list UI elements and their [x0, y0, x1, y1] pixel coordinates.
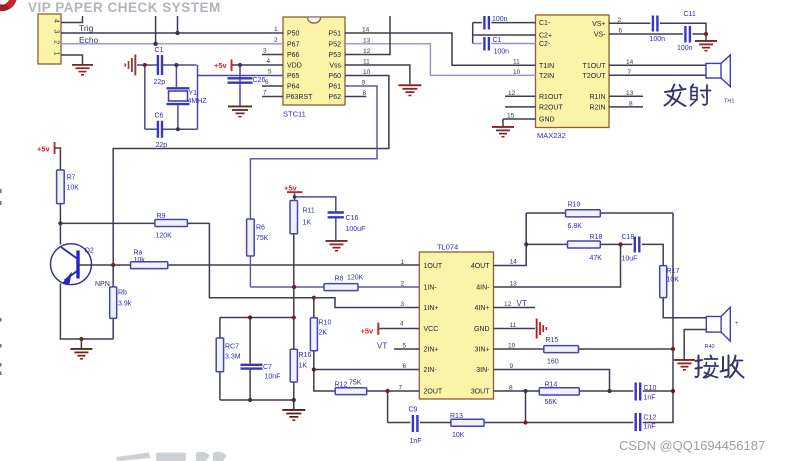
svg-text:Ra: Ra: [134, 250, 143, 257]
svg-text:C26: C26: [253, 77, 266, 84]
svg-text:C16: C16: [346, 215, 359, 222]
svg-text:10K: 10K: [667, 277, 680, 284]
svg-text:4IN+: 4IN+: [475, 305, 490, 312]
svg-text:R8: R8: [335, 276, 344, 283]
svg-text:47K: 47K: [590, 255, 603, 262]
svg-text:R6: R6: [256, 225, 265, 232]
svg-text:100n: 100n: [677, 45, 693, 52]
svg-text:RC7: RC7: [225, 344, 239, 351]
svg-text:R12: R12: [335, 382, 348, 389]
svg-text:TH1: TH1: [724, 99, 734, 105]
svg-text:120K: 120K: [347, 275, 364, 282]
svg-text:+5v: +5v: [284, 184, 298, 193]
svg-text:T2IN: T2IN: [539, 73, 554, 80]
svg-text:3: 3: [53, 30, 60, 34]
svg-text:R13: R13: [450, 413, 463, 420]
svg-text:R14: R14: [545, 382, 558, 389]
svg-text:11: 11: [363, 59, 370, 66]
svg-text:10nF: 10nF: [265, 374, 281, 381]
svg-text:8: 8: [363, 90, 367, 97]
svg-text:2: 2: [274, 37, 278, 44]
svg-text:7: 7: [263, 90, 267, 97]
svg-text:C18: C18: [622, 234, 635, 241]
svg-text:T1OUT: T1OUT: [583, 63, 607, 70]
svg-text:4: 4: [267, 58, 271, 65]
svg-text:VT: VT: [377, 342, 387, 351]
svg-text:TL074: TL074: [437, 243, 458, 252]
svg-text:13: 13: [363, 37, 371, 44]
svg-text:8: 8: [509, 385, 513, 392]
svg-text:5: 5: [268, 69, 272, 76]
svg-text:100uF: 100uF: [346, 226, 366, 233]
svg-text:Echo: Echo: [79, 35, 99, 45]
svg-text:P52: P52: [329, 41, 342, 48]
svg-text:10k: 10k: [134, 257, 146, 264]
svg-text:1nF: 1nF: [644, 395, 656, 402]
svg-text:5: 5: [403, 343, 407, 350]
svg-text:C12: C12: [644, 415, 657, 422]
svg-text:12: 12: [508, 90, 516, 97]
svg-text:2K: 2K: [319, 330, 328, 337]
svg-text:P63RST: P63RST: [286, 94, 313, 101]
svg-text:+5v: +5v: [361, 327, 375, 336]
svg-text:T1IN: T1IN: [539, 63, 554, 70]
svg-text:Y1: Y1: [189, 90, 198, 97]
svg-text:2IN+: 2IN+: [424, 347, 439, 354]
svg-text:R40: R40: [705, 344, 715, 350]
svg-text:15: 15: [507, 112, 515, 119]
svg-text:R10: R10: [319, 320, 332, 327]
svg-text:C11: C11: [684, 11, 696, 18]
svg-text:22p: 22p: [154, 79, 166, 86]
svg-text:2: 2: [401, 281, 405, 288]
svg-text:9: 9: [362, 80, 366, 87]
svg-text:10uF: 10uF: [622, 256, 638, 263]
svg-text:GND: GND: [539, 117, 555, 124]
svg-text:4: 4: [53, 19, 60, 23]
svg-text:Rb: Rb: [118, 290, 127, 297]
svg-text:R18: R18: [590, 234, 603, 241]
svg-text:7: 7: [399, 385, 403, 392]
svg-text:1nF: 1nF: [644, 424, 656, 431]
svg-text:P67: P67: [287, 41, 300, 48]
svg-text:10K: 10K: [67, 185, 80, 192]
svg-text:75K: 75K: [349, 380, 362, 387]
svg-text:3IN+: 3IN+: [475, 347, 490, 354]
svg-text:3.3M: 3.3M: [225, 354, 241, 361]
svg-text:P50: P50: [287, 31, 300, 38]
svg-text:P64: P64: [287, 84, 300, 91]
svg-text:C1-: C1-: [539, 20, 551, 27]
svg-text:3IN-: 3IN-: [476, 367, 490, 374]
svg-text:MAX232: MAX232: [537, 131, 566, 140]
svg-text:VDD: VDD: [287, 63, 302, 70]
svg-text:C1: C1: [155, 47, 164, 54]
svg-text:P61: P61: [329, 84, 342, 91]
svg-text:1: 1: [53, 52, 60, 56]
svg-text:4MHZ: 4MHZ: [188, 98, 208, 105]
svg-text:1: 1: [274, 26, 278, 33]
svg-text:2: 2: [53, 40, 60, 44]
svg-text:9: 9: [510, 363, 514, 370]
svg-text:P53: P53: [329, 52, 342, 59]
svg-text:14: 14: [626, 59, 634, 66]
svg-text:1IN+: 1IN+: [424, 305, 439, 312]
svg-text:10: 10: [508, 343, 516, 350]
svg-text:+5v: +5v: [37, 145, 51, 154]
svg-text:R1OUT: R1OUT: [539, 94, 563, 101]
svg-text:R17: R17: [667, 268, 680, 275]
svg-text:R7: R7: [67, 175, 76, 182]
svg-text:VT: VT: [517, 299, 527, 308]
svg-text:11: 11: [510, 322, 517, 329]
svg-text:VS+: VS+: [592, 21, 605, 28]
svg-text:R1IN: R1IN: [590, 94, 606, 101]
svg-text:R19: R19: [568, 202, 581, 209]
svg-text:R2IN: R2IN: [590, 104, 606, 111]
svg-text:2OUT: 2OUT: [424, 389, 443, 396]
svg-text:P60: P60: [329, 73, 342, 80]
svg-text:10: 10: [513, 69, 521, 76]
svg-text:12: 12: [363, 48, 371, 55]
svg-text:13: 13: [510, 281, 518, 288]
svg-text:1nF: 1nF: [410, 438, 422, 445]
svg-text:R15: R15: [546, 337, 559, 344]
svg-text:3: 3: [401, 301, 405, 308]
svg-text:R16: R16: [299, 352, 312, 359]
svg-text:6: 6: [265, 79, 269, 86]
svg-text:100n: 100n: [492, 16, 508, 23]
svg-text:NPN: NPN: [95, 281, 110, 288]
svg-text:1K: 1K: [299, 363, 308, 370]
svg-text:14: 14: [510, 259, 518, 266]
svg-text:C1: C1: [493, 37, 502, 44]
svg-text:CSDN @QQ1694456187: CSDN @QQ1694456187: [619, 438, 765, 453]
svg-text:75K: 75K: [256, 235, 269, 242]
svg-text:C6: C6: [155, 113, 164, 120]
svg-text:R9: R9: [157, 213, 166, 220]
svg-text:P51: P51: [329, 31, 342, 38]
svg-text:6: 6: [403, 363, 407, 370]
svg-text:Q2: Q2: [85, 248, 94, 255]
svg-text:120K: 120K: [156, 233, 173, 240]
svg-text:2IN-: 2IN-: [424, 367, 438, 374]
svg-text:1: 1: [401, 259, 405, 266]
svg-text:GND: GND: [474, 326, 490, 333]
svg-text:4OUT: 4OUT: [471, 263, 490, 270]
svg-text:1K: 1K: [303, 220, 312, 227]
svg-text:12: 12: [504, 301, 512, 308]
svg-text:4IN-: 4IN-: [476, 285, 490, 292]
svg-text:2: 2: [618, 17, 622, 24]
svg-text:C2+: C2+: [539, 33, 552, 40]
svg-text:8: 8: [629, 100, 633, 107]
svg-text:C2-: C2-: [539, 41, 551, 48]
svg-text:6.8K: 6.8K: [568, 223, 583, 230]
svg-text:13: 13: [626, 90, 634, 97]
svg-text:160: 160: [547, 359, 559, 366]
svg-text:P65: P65: [287, 73, 300, 80]
svg-text:VIP PAPER CHECK SYSTEM: VIP PAPER CHECK SYSTEM: [28, 0, 221, 15]
svg-text:Vss: Vss: [329, 63, 341, 70]
svg-text:7: 7: [628, 69, 632, 76]
svg-text:6: 6: [619, 28, 623, 35]
svg-text:C9: C9: [409, 407, 418, 414]
svg-text:C10: C10: [644, 385, 657, 392]
svg-text:1IN-: 1IN-: [424, 285, 438, 292]
svg-text:R2OUT: R2OUT: [539, 104, 563, 111]
svg-text:3: 3: [263, 48, 267, 55]
svg-text:3.9k: 3.9k: [118, 301, 132, 308]
svg-text:VCC: VCC: [424, 326, 439, 333]
svg-text:3OUT: 3OUT: [471, 389, 490, 396]
svg-text:C7: C7: [263, 364, 272, 371]
svg-text:P62: P62: [329, 94, 342, 101]
svg-text:1OUT: 1OUT: [424, 263, 443, 270]
svg-text:R11: R11: [303, 208, 315, 215]
svg-text:Trig: Trig: [79, 23, 94, 33]
svg-text:P66: P66: [287, 52, 300, 59]
svg-text:56K: 56K: [545, 399, 558, 406]
svg-text:+: +: [735, 321, 739, 327]
svg-text:T2OUT: T2OUT: [583, 73, 607, 80]
svg-text:10K: 10K: [452, 432, 465, 439]
svg-text:10: 10: [363, 69, 371, 76]
svg-text:11: 11: [513, 59, 520, 66]
svg-text:+5v: +5v: [214, 61, 228, 70]
svg-text:22p: 22p: [156, 142, 168, 149]
svg-text:100n: 100n: [650, 36, 666, 43]
svg-text:VS-: VS-: [594, 32, 606, 39]
svg-text:STC11: STC11: [283, 110, 306, 119]
svg-text:4: 4: [400, 321, 404, 328]
svg-text:14: 14: [362, 27, 370, 34]
svg-text:100n: 100n: [494, 49, 510, 56]
